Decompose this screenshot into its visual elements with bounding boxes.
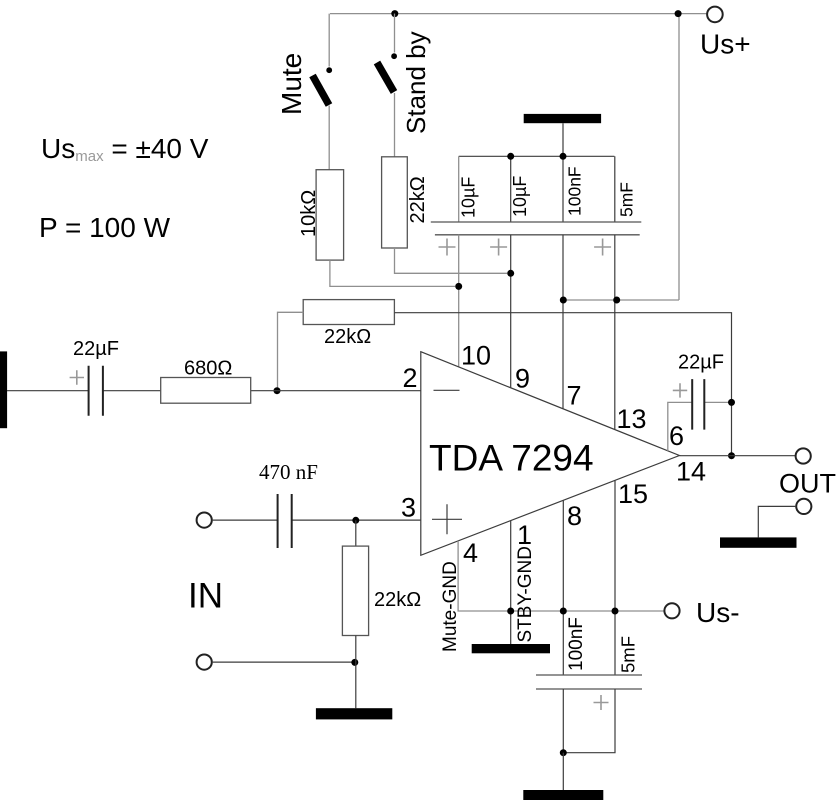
svg-text:Usmax = ±40 V: Usmax = ±40 V xyxy=(41,133,209,165)
svg-text:4: 4 xyxy=(463,538,478,568)
svg-text:22kΩ: 22kΩ xyxy=(374,589,421,611)
svg-text:8: 8 xyxy=(567,501,582,531)
svg-text:5mF: 5mF xyxy=(618,636,639,673)
svg-text:680Ω: 680Ω xyxy=(184,358,232,380)
svg-text:15: 15 xyxy=(618,479,648,509)
svg-text:1: 1 xyxy=(517,520,532,550)
svg-text:14: 14 xyxy=(676,457,706,487)
svg-text:22µF: 22µF xyxy=(73,338,119,360)
svg-text:7: 7 xyxy=(567,381,582,411)
svg-text:22kΩ: 22kΩ xyxy=(407,176,429,223)
svg-text:Stand by: Stand by xyxy=(401,31,431,134)
svg-text:P = 100 W: P = 100 W xyxy=(39,212,171,243)
svg-text:Mute-GND: Mute-GND xyxy=(440,561,461,652)
svg-text:IN: IN xyxy=(188,577,223,616)
svg-text:TDA 7294: TDA 7294 xyxy=(429,438,594,479)
svg-text:10kΩ: 10kΩ xyxy=(298,190,320,237)
svg-text:470 nF: 470 nF xyxy=(259,460,318,484)
svg-text:Mute: Mute xyxy=(276,53,307,115)
svg-text:3: 3 xyxy=(401,493,416,523)
svg-text:10: 10 xyxy=(461,341,491,371)
svg-text:OUT: OUT xyxy=(779,469,836,499)
svg-text:2: 2 xyxy=(403,363,418,393)
svg-text:5mF: 5mF xyxy=(617,182,637,217)
svg-text:6: 6 xyxy=(669,421,684,451)
svg-text:10µF: 10µF xyxy=(459,177,479,218)
svg-text:13: 13 xyxy=(617,404,647,434)
svg-text:STBY-GND: STBY-GND xyxy=(515,546,536,642)
svg-text:Us-: Us- xyxy=(696,597,740,628)
svg-text:100nF: 100nF xyxy=(565,166,585,216)
svg-text:9: 9 xyxy=(515,364,530,394)
svg-text:100nF: 100nF xyxy=(566,617,587,671)
svg-text:22kΩ: 22kΩ xyxy=(324,326,371,348)
svg-text:10µF: 10µF xyxy=(510,176,530,217)
svg-text:22µF: 22µF xyxy=(678,352,724,374)
svg-text:Us+: Us+ xyxy=(700,29,751,60)
